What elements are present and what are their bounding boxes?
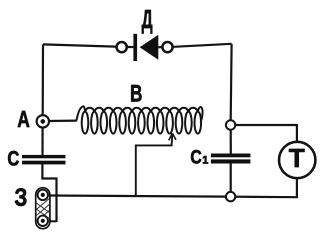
- diode Д cathode bar: [133, 34, 137, 61]
- wire top right segment: [174, 44, 232, 47]
- svg-text:В: В: [130, 80, 142, 107]
- wire headphone top branch: [236, 125, 297, 141]
- diode terminal (right): [162, 42, 172, 52]
- svg-text:Т: Т: [289, 145, 305, 173]
- node junction top right: [226, 120, 235, 129]
- wire C1 to bottom node: [230, 164, 232, 192]
- wire top left segment: [43, 44, 116, 46]
- tuning tap arrowhead: [169, 133, 176, 140]
- svg-text:А: А: [17, 106, 30, 132]
- label С1: [190, 148, 208, 169]
- svg-text:С: С: [190, 148, 202, 169]
- capacitor C1: [211, 154, 251, 164]
- diode Д anode triangle: [140, 35, 159, 60]
- ground clamp hatching: [36, 199, 49, 222]
- svg-text:1: 1: [202, 155, 208, 167]
- wire node A to capacitor C: [41, 128, 43, 156]
- ground clamp З (body): [36, 188, 50, 229]
- wire bottom horizontal: [49, 196, 225, 197]
- ground clamp terminal (lower circle): [38, 216, 48, 226]
- headphone T (circle): [279, 142, 315, 178]
- inductor B (coil): [77, 106, 203, 133]
- wire coil lead (A to coil): [49, 119, 77, 122]
- wire headphone bottom branch: [236, 178, 297, 197]
- wire diode left circle to cathode bar: [128, 46, 134, 48]
- capacitor C: [22, 155, 66, 165]
- wire right vertical upper: [230, 44, 233, 120]
- wire stub to clamp lower circle: [49, 220, 56, 222]
- wire node to C1: [230, 130, 232, 154]
- ground clamp terminal (upper circle): [38, 190, 48, 200]
- svg-text:З: З: [14, 184, 27, 212]
- node junction bottom right: [226, 192, 235, 201]
- svg-text:Д: Д: [142, 4, 153, 34]
- diode terminal (left): [117, 42, 127, 52]
- tuning tap wire: [136, 133, 173, 196]
- antenna terminal A: [37, 115, 49, 127]
- wire C to ground clamp (jog): [42, 164, 56, 222]
- wire left vertical (A branch): [42, 44, 44, 114]
- wire triangle to right circle: [158, 46, 161, 48]
- svg-text:С: С: [7, 146, 19, 170]
